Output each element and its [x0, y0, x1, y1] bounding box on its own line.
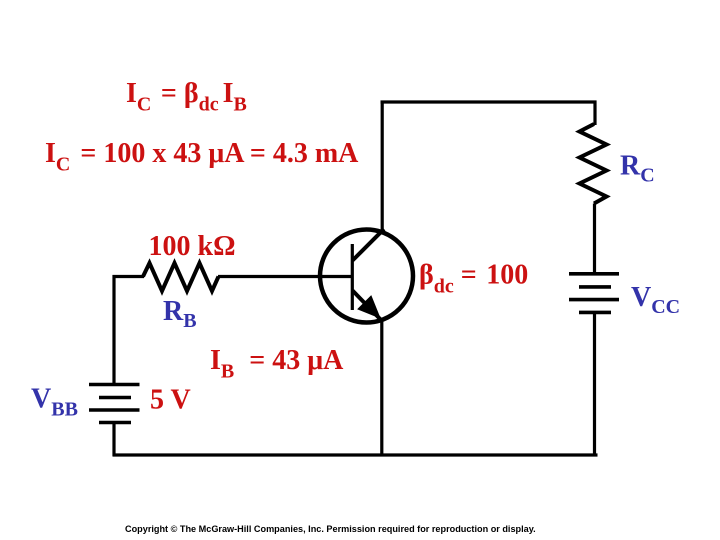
- resistor RC: [580, 124, 607, 204]
- svg-text:RC: RC: [620, 151, 655, 187]
- wire RC to VCC: [593, 204, 596, 273]
- svg-text:VBB: VBB: [31, 384, 78, 421]
- transistor base bar: [351, 244, 354, 310]
- battery VCC: [569, 274, 619, 313]
- wire top (collector node to RC branch): [381, 100, 597, 103]
- battery VBB: [89, 385, 140, 423]
- svg-text:βdc = 100: βdc = 100: [419, 260, 528, 298]
- transistor Q1: [320, 229, 413, 323]
- svg-text:IC = 100 x 43 μA = 4.3 mA: IC = 100 x 43 μA = 4.3 mA: [45, 138, 359, 176]
- wire RC top lead: [593, 101, 596, 126]
- transistor emitter arrowhead: [359, 297, 379, 317]
- wire emitter vertical: [380, 320, 383, 455]
- wire VBB bottom lead: [112, 423, 115, 457]
- svg-text:5 V: 5 V: [150, 385, 191, 416]
- svg-text:IB = 43 μA: IB = 43 μA: [210, 345, 344, 383]
- resistor RB: [143, 263, 219, 291]
- svg-text:VCC: VCC: [631, 282, 680, 318]
- svg-text:100 kΩ: 100 kΩ: [149, 231, 236, 262]
- wire bottom: [113, 453, 598, 456]
- wire base left segment: [113, 275, 145, 278]
- wire collector vertical: [381, 101, 384, 232]
- wire VCC to bottom: [593, 313, 596, 457]
- transistor emitter slant: [353, 291, 382, 321]
- wire VBB top lead: [112, 275, 115, 384]
- svg-text:RB: RB: [163, 296, 197, 332]
- svg-text:Copyright © The McGraw-Hill Co: Copyright © The McGraw-Hill Companies, I…: [125, 524, 536, 534]
- wire base to transistor: [218, 275, 351, 278]
- svg-text:IC = βdc IB: IC = βdc IB: [126, 78, 247, 116]
- transistor collector slant: [353, 229, 385, 261]
- transistor body circle: [320, 230, 413, 323]
